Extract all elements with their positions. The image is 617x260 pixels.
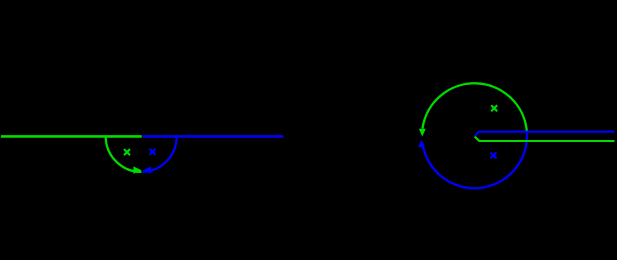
- left contour: blue arrowhead pointing left at arc bottom: [143, 166, 151, 173]
- right contour: blue pole marker x: [491, 152, 497, 158]
- right contour: green pole marker x: [491, 105, 497, 111]
- right contour: green upper circle arc: [423, 83, 527, 131]
- left contour: blue indent arc below axis: [143, 136, 177, 172]
- left contour: green indent arc below axis: [106, 136, 142, 172]
- left contour: blue pole marker x: [150, 149, 156, 155]
- left contour: green half of real axis: [1, 135, 142, 138]
- right contour: green lower branch-cut line: [475, 137, 615, 141]
- right contour: blue arrowhead pointing up at left of circle: [418, 140, 425, 148]
- right contour: blue upper branch-cut line: [475, 132, 615, 137]
- left contour: green pole marker x: [124, 149, 130, 155]
- right contour: green arrowhead pointing down at left of circle: [419, 129, 426, 137]
- left contour: green arrowhead pointing right at arc bottom: [133, 166, 141, 173]
- left contour: blue half of real axis: [143, 135, 283, 138]
- right contour: blue lower circle arc: [423, 133, 527, 188]
